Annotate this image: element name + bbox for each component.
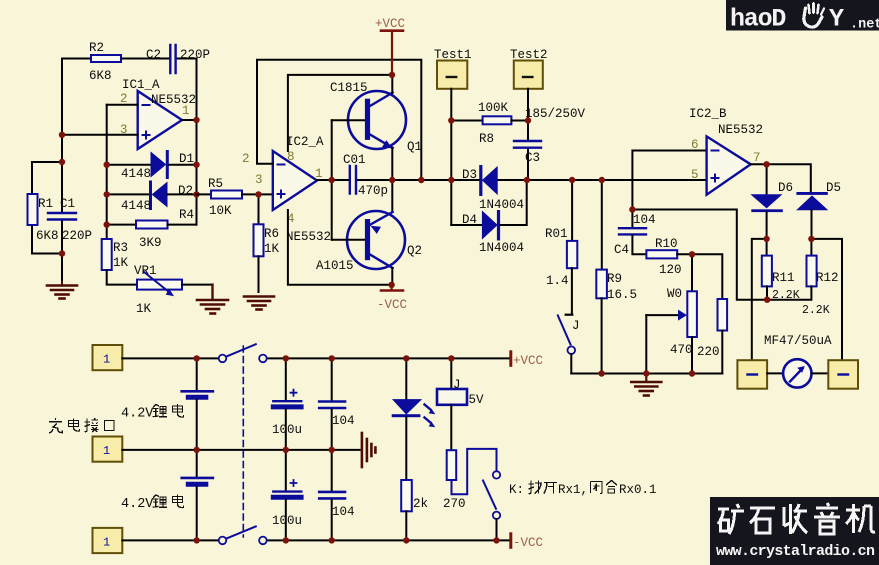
wire top left feedback rail [62, 58, 197, 60]
switch top [219, 344, 267, 362]
resistor R1 [28, 194, 59, 243]
diode D1 4148 [107, 150, 197, 181]
resistor R4 [107, 208, 197, 250]
svg-text:D4: D4 [462, 213, 477, 227]
wire IC2_A pin8 to VCC rail [288, 75, 392, 151]
svg-text:220: 220 [697, 345, 720, 359]
relay J 5V [437, 358, 484, 450]
wire Test1 lead vertical [450, 89, 452, 225]
svg-text:104: 104 [332, 505, 355, 519]
svg-text:haoD: haoD [730, 5, 786, 34]
ground mid rail [631, 374, 661, 396]
meter MF47/50uA [764, 334, 832, 388]
junction dots left section [59, 117, 200, 257]
resistor R6 [254, 194, 280, 292]
svg-text:1K: 1K [136, 302, 152, 316]
svg-text:R9: R9 [607, 272, 622, 286]
capacitor 104 no.2 [319, 450, 354, 541]
svg-text:100K: 100K [478, 101, 509, 115]
diode D4 1N4004 [451, 180, 526, 255]
diode D6 [751, 164, 793, 239]
svg-text:1.4: 1.4 [546, 274, 569, 288]
wire IC1 pin2 [107, 104, 138, 106]
svg-text:1N4004: 1N4004 [479, 198, 524, 212]
svg-text:C1815: C1815 [330, 81, 368, 95]
svg-text:185/250V: 185/250V [525, 107, 586, 121]
diode D2 4148 [107, 181, 197, 214]
power -VCC battery [511, 534, 543, 550]
svg-text:.net: .net [850, 18, 879, 33]
svg-text:C2: C2 [146, 48, 161, 62]
svg-text:1: 1 [182, 104, 190, 118]
svg-text:Q2: Q2 [407, 244, 422, 258]
svg-text:1: 1 [315, 167, 323, 181]
svg-text:-VCC: -VCC [377, 298, 407, 312]
power +VCC battery [511, 352, 543, 368]
svg-text:4.2V: 4.2V [121, 407, 154, 422]
terminal Test1 [434, 48, 472, 89]
ground rotated battery mid [362, 433, 376, 467]
svg-text:C4: C4 [614, 243, 629, 257]
terminal connector 1 middle [93, 437, 123, 462]
svg-text:7: 7 [753, 151, 761, 165]
svg-text:220P: 220P [180, 48, 210, 62]
capacitor C4 [614, 213, 656, 257]
wire Test2 lead vertical [527, 89, 529, 180]
wire mid vertical column x=106.7 [106, 105, 108, 239]
svg-text:J: J [453, 378, 461, 392]
op-amp IC2_A [242, 135, 331, 244]
transistor Q1 C1815 [330, 75, 422, 180]
resistor R8 [451, 101, 528, 146]
label 充电接口 charging port [49, 418, 114, 433]
svg-text:Rx0.1: Rx0.1 [619, 483, 657, 497]
switch K [483, 471, 500, 540]
wire IC2_B output [751, 164, 811, 192]
svg-text:MF47/50uA: MF47/50uA [764, 334, 832, 348]
capacitor 100u no.1 electrolytic [272, 358, 302, 450]
svg-text:R11: R11 [772, 271, 795, 285]
svg-text:6K8: 6K8 [36, 229, 59, 243]
svg-text:D2: D2 [178, 184, 193, 198]
wire IC2_B pin6 feedback loop [632, 151, 767, 300]
svg-text:2k: 2k [413, 497, 428, 511]
LED indicator [392, 358, 436, 480]
svg-text:2.2K: 2.2K [802, 304, 830, 317]
svg-text:Y: Y [829, 5, 844, 34]
svg-text:R6: R6 [264, 227, 279, 241]
svg-text:R5: R5 [208, 177, 223, 191]
op-amp IC1_A [120, 78, 196, 149]
svg-text:C3: C3 [525, 151, 540, 165]
dashed link line [242, 346, 244, 537]
transistor Q2 A1015 [316, 180, 422, 285]
switch J [558, 315, 580, 374]
svg-text:A1015: A1015 [316, 259, 354, 273]
diode D3 1N4004 [462, 165, 524, 212]
label 锂电 battery chars no.1 [121, 404, 184, 422]
junction dots battery section [194, 355, 500, 543]
resistor 2k [401, 480, 428, 540]
ground under C1 [47, 282, 77, 299]
wire 270 to switch K [452, 449, 497, 494]
label K: switch note [509, 481, 657, 498]
svg-text:4148: 4148 [121, 167, 151, 181]
logo top haoDIY.net [726, 0, 879, 34]
terminal meter left [737, 360, 767, 389]
battery B2 4.2V [182, 450, 213, 541]
resistor R9 [596, 180, 637, 374]
diode D5 [796, 181, 841, 239]
resistor R3 [102, 239, 137, 285]
svg-text:R8: R8 [479, 132, 494, 146]
svg-text:100u: 100u [272, 423, 302, 437]
svg-text:5: 5 [691, 168, 699, 182]
wire right vertical column x=196.5 [196, 59, 198, 225]
wire meter left branch [752, 239, 767, 360]
svg-text:IC2_A: IC2_A [286, 135, 324, 149]
svg-text:R01: R01 [545, 227, 568, 241]
terminal connector 1 bottom [93, 528, 123, 553]
svg-text:1: 1 [103, 353, 110, 367]
terminal Test2 [510, 48, 548, 89]
svg-text:C1: C1 [60, 197, 75, 211]
wire top rail battery [122, 357, 511, 359]
resistor 220 [692, 254, 727, 373]
terminal meter right [828, 360, 858, 389]
op-amp IC2_B [689, 107, 763, 195]
wire IC2_A output line [317, 179, 707, 181]
svg-text:VR1: VR1 [134, 264, 157, 278]
svg-text:5V: 5V [469, 393, 485, 407]
resistor R10 [646, 237, 692, 277]
label 锂电 battery chars no.2 [121, 495, 184, 513]
svg-text:4148: 4148 [121, 199, 151, 213]
svg-text:R4: R4 [179, 208, 194, 222]
svg-text:Q1: Q1 [407, 140, 422, 154]
svg-text:R2: R2 [89, 41, 104, 55]
svg-text:C01: C01 [343, 153, 366, 167]
svg-text:D6: D6 [778, 181, 793, 195]
svg-text:K:: K: [509, 483, 524, 497]
svg-text:D1: D1 [179, 152, 194, 166]
svg-text:120: 120 [659, 263, 682, 277]
resistor R2 [89, 41, 121, 83]
svg-text:NE5532: NE5532 [718, 123, 763, 137]
wire R1 branch [32, 162, 62, 254]
svg-text:1K: 1K [264, 242, 280, 256]
svg-text:D5: D5 [826, 181, 841, 195]
svg-text:1N4004: 1N4004 [479, 241, 524, 255]
ground under VR1 [197, 285, 228, 314]
svg-text:1: 1 [103, 444, 110, 458]
svg-text:3K9: 3K9 [139, 236, 162, 250]
svg-text:10K: 10K [209, 204, 232, 218]
svg-text:270: 270 [443, 497, 466, 511]
svg-text:-VCC: -VCC [513, 536, 543, 550]
svg-text:R3: R3 [113, 241, 128, 255]
svg-text:2: 2 [242, 152, 250, 166]
ground under R6 [244, 297, 274, 310]
terminal connector 1 top [93, 345, 123, 370]
svg-text:R10: R10 [655, 237, 678, 251]
capacitor C3 [514, 107, 586, 165]
svg-text:J: J [572, 319, 580, 333]
svg-text:W0: W0 [667, 287, 682, 301]
svg-text:6K8: 6K8 [89, 69, 112, 83]
svg-text:Rx1,: Rx1, [558, 483, 588, 497]
svg-text:3: 3 [255, 173, 263, 187]
resistor 270 [443, 450, 466, 511]
svg-text:www.crystalradio.cn: www.crystalradio.cn [716, 543, 875, 560]
potentiometer VR1 [134, 264, 213, 316]
battery B1 4.2V [182, 358, 213, 450]
wire bottom rail mid [571, 373, 722, 375]
power -VCC bottom [377, 285, 407, 312]
svg-text:4.2V: 4.2V [121, 497, 154, 512]
resistor R5 [197, 177, 273, 218]
resistor R11 [762, 239, 800, 302]
switch bottom [219, 526, 267, 544]
svg-text:IC1_A: IC1_A [122, 78, 160, 92]
junction dots right section [569, 161, 815, 377]
svg-text:+VCC: +VCC [513, 354, 543, 368]
potentiometer W0 [646, 254, 697, 373]
svg-text:R12: R12 [816, 271, 839, 285]
junction dots middle section [255, 72, 424, 288]
wire meter right branch [811, 239, 842, 360]
svg-text:1K: 1K [113, 256, 129, 270]
capacitor 104 no.1 [319, 358, 354, 450]
wire base tie vertical [331, 120, 333, 240]
logo bottom crystalradio [710, 497, 879, 565]
wire IC1 output to right column [182, 119, 197, 121]
junction dots test section [448, 117, 531, 183]
svg-text:104: 104 [332, 414, 355, 428]
wire IC2_A pin4 to -VCC [288, 210, 392, 285]
wire IC1 pin3 [62, 134, 138, 136]
svg-text:470: 470 [670, 343, 693, 357]
resistor R01 [545, 180, 577, 313]
svg-text:16.5: 16.5 [607, 288, 637, 302]
svg-text:104: 104 [633, 213, 656, 227]
svg-text:R1: R1 [38, 197, 53, 211]
wire middle rail battery [122, 449, 359, 451]
svg-text:NE5532: NE5532 [286, 230, 331, 244]
svg-text:100u: 100u [272, 514, 302, 528]
power +VCC top [375, 17, 405, 75]
svg-text:470p: 470p [358, 184, 388, 198]
svg-text:+VCC: +VCC [375, 17, 405, 31]
resistor R12 [767, 239, 838, 317]
capacitor C1 [48, 197, 92, 243]
capacitor C01 [343, 153, 388, 198]
svg-text:8: 8 [287, 150, 295, 164]
wire left vertical column x=62 [61, 59, 63, 285]
svg-text:IC2_B: IC2_B [689, 107, 727, 121]
capacitor 100u no.2 electrolytic [272, 450, 302, 541]
wire bottom rail battery [122, 539, 511, 541]
svg-text:D3: D3 [462, 168, 477, 182]
capacitor C2 [146, 45, 210, 73]
svg-text:6: 6 [691, 138, 699, 152]
svg-text:220P: 220P [62, 229, 92, 243]
wire IC2_A pin2 feedback loop [257, 60, 421, 180]
svg-text:1: 1 [103, 535, 110, 549]
